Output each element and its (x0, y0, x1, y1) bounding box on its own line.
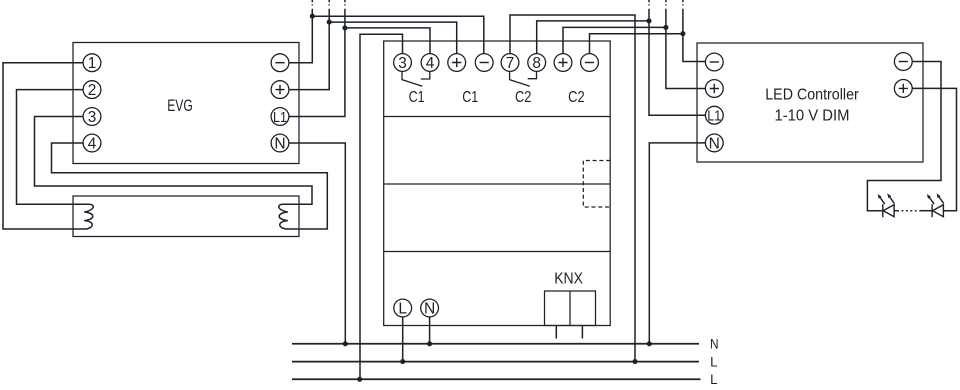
svg-text:C1: C1 (409, 89, 425, 106)
svg-text:EVG: EVG (167, 96, 193, 115)
svg-text:2: 2 (88, 82, 97, 99)
svg-text:4: 4 (426, 55, 435, 72)
svg-text:1-10 V DIM: 1-10 V DIM (775, 107, 850, 124)
svg-text:3: 3 (88, 109, 97, 126)
svg-text:N: N (709, 136, 720, 153)
svg-text:L1: L1 (273, 109, 287, 126)
svg-text:1: 1 (88, 55, 97, 72)
svg-text:4: 4 (88, 136, 97, 153)
svg-text:KNX: KNX (554, 271, 583, 288)
svg-text:3: 3 (398, 55, 407, 72)
svg-text:L: L (710, 371, 718, 387)
svg-text:C2: C2 (515, 89, 532, 106)
svg-text:L: L (398, 301, 407, 318)
svg-text:L: L (710, 353, 718, 369)
svg-text:7: 7 (506, 55, 515, 72)
svg-text:C2: C2 (568, 89, 585, 106)
svg-text:N: N (424, 301, 435, 318)
svg-text:N: N (274, 136, 285, 153)
svg-text:N: N (710, 335, 719, 351)
svg-text:L1: L1 (707, 108, 721, 125)
svg-text:C1: C1 (462, 89, 478, 106)
svg-text:LED Controller: LED Controller (765, 87, 859, 104)
svg-text:8: 8 (532, 55, 541, 72)
